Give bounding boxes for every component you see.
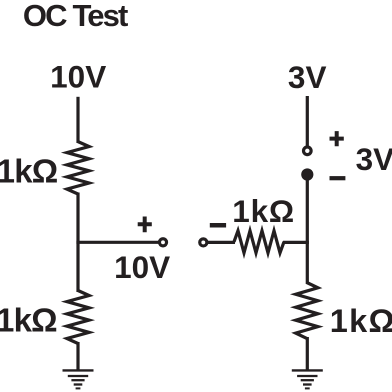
svg-text:1kΩ: 1kΩ [232,193,295,229]
ground (right) [292,369,323,371]
svg-text:10V: 10V [50,59,106,95]
plus sign (left output) [138,217,152,233]
resistor R2 1kOhm (lower left) [67,291,89,344]
wire terminal to R3 [207,241,235,244]
resistor R1 1kOhm (upper left) [67,142,89,194]
wire R1 to R2 through output node [76,193,79,293]
wire R4 to ground [306,337,309,370]
open terminal (right, + of 3V gap) [304,147,312,155]
wire R3 to right rail junction [283,241,309,244]
svg-text:1kΩ: 1kΩ [330,303,392,339]
svg-text:10V: 10V [114,249,170,285]
resistor R4 1kOhm (lower right) [296,283,318,339]
minus sign (left end of R3) [210,223,226,228]
wire output node to open terminal [76,241,159,244]
node dot (right, - of 3V gap) [301,168,313,180]
svg-text:OC Test: OC Test [23,0,128,33]
svg-text:3V: 3V [356,141,392,177]
svg-text:1kΩ: 1kΩ [0,153,58,190]
minus sign (right gap) [330,176,346,180]
wire from 10V source down to R1 [76,97,79,143]
plus sign (right gap) [330,131,344,146]
open terminal (left, 10V output) [159,239,166,246]
wire node dot down to R4 [306,175,309,285]
wire from 3V source down to upper terminal [306,96,309,147]
svg-text:1kΩ: 1kΩ [0,301,57,338]
open terminal (left end of R3) [200,239,207,246]
resistor R3 1kOhm (horizontal) [234,231,284,253]
svg-text:3V: 3V [288,59,327,95]
wire R2 to ground [76,342,79,370]
ground (left) [63,369,94,371]
